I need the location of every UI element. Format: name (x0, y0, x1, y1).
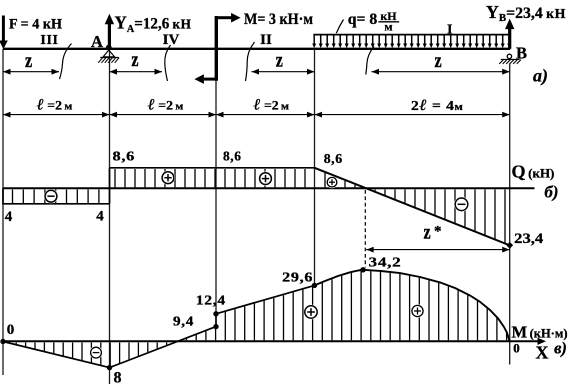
Q axis (zero line) (3, 187, 535, 189)
vertical gridline at start of distributed load (314, 49, 316, 286)
dashed line at Q zero crossing (364, 190, 366, 268)
svg-text:8,6: 8,6 (223, 150, 242, 165)
couple M: bottom arm arrow (left) (204, 78, 216, 81)
distributed load q: top line (313, 34, 509, 36)
Q plus sign circle 3 (326, 176, 338, 188)
Q positive rectangle top edge (110, 167, 315, 169)
distributed load q: arrows (313, 35, 315, 44)
length dimension row line (3, 114, 510, 116)
svg-text:12,4: 12,4 (196, 294, 226, 309)
section cut wavy line (II) (246, 42, 255, 81)
roller support at B: ground hatching (499, 60, 503, 64)
M dot at peak 34,2 (360, 267, 365, 272)
couple M: top arm arrow (right) (216, 16, 232, 19)
Q minus sign circle (right) (454, 197, 469, 212)
svg-text:M= 3 кН·м: M= 3 кН·м (244, 11, 313, 28)
svg-text:z: z (276, 49, 283, 73)
section cut wavy line (III) (60, 44, 72, 80)
M line 12,4 to 29,6 (216, 285, 315, 313)
svg-text:4: 4 (96, 208, 104, 224)
M dot at 9,4 (213, 324, 218, 329)
svg-text:4: 4 (5, 209, 13, 225)
pin support at A: triangle (103, 50, 115, 57)
Q value marker at B (diamond) (506, 242, 513, 249)
svg-text:z: z (434, 49, 441, 73)
svg-text:F = 4 кН: F = 4 кН (9, 16, 62, 32)
svg-text:8: 8 (114, 370, 122, 386)
M diagram hatching: positive region (186, 339, 188, 341)
reaction Y_A arrow (up) at A (108, 24, 111, 49)
q label leader line (336, 20, 343, 34)
Q plus sign circle 1 (161, 171, 175, 185)
Q diagram hatching: negative triangle (374, 190, 376, 192)
roller support at B: ground line (501, 58, 520, 60)
svg-text:а): а) (533, 65, 548, 86)
M line 0 to -8 (3, 342, 110, 368)
Q minus sign circle (left) (44, 189, 58, 203)
length dimension arrows (3, 112, 11, 118)
reaction Y_B arrow (up) at B (508, 29, 511, 49)
Q diagram hatching: negative rectangle (12, 190, 14, 204)
pin support at A: hinge circle (106, 45, 112, 51)
svg-text:*: * (434, 224, 442, 240)
svg-text:III: III (40, 33, 58, 48)
M minus sign circle (89, 346, 102, 359)
svg-text:II: II (260, 32, 272, 48)
force F arrow (down) at left end (2, 16, 5, 43)
M parabolic curve to peak 34,2 and down to B (315, 270, 510, 342)
Q diagonal from q start to B (315, 168, 510, 246)
roller support at B: circle (507, 54, 511, 58)
Q plus sign circle 2 (258, 172, 272, 186)
couple M: vertical bar (215, 16, 218, 81)
section cut wavy line (I) (366, 47, 374, 75)
svg-text:б): б) (544, 183, 558, 202)
svg-text:9,4: 9,4 (173, 315, 194, 330)
svg-text:м: м (384, 19, 392, 33)
z dimension row: segment III (3, 71, 59, 73)
svg-text:29,6: 29,6 (282, 270, 313, 285)
svg-text:8,6: 8,6 (324, 152, 343, 167)
M plus sign circle 2 (411, 304, 425, 318)
label z* (423, 220, 430, 244)
svg-text:A: A (91, 32, 103, 51)
svg-text:I: I (447, 23, 453, 38)
svg-text:z: z (131, 48, 138, 72)
vertical gridline at support B (509, 64, 511, 365)
M start dot (0, 339, 5, 344)
z dimension row: segment I (372, 71, 510, 73)
M axis (X axis) (3, 340, 538, 342)
svg-text:23,4: 23,4 (514, 231, 544, 247)
M line -8 to 9,4 (110, 327, 217, 368)
pin support at A: ground hatching (98, 58, 102, 63)
beam schematic: main beam line (3, 48, 510, 50)
M dot at A (-8) (107, 365, 112, 370)
vertical gridline at left end (2, 49, 4, 375)
M dot at 12,4 (213, 311, 218, 316)
section cut wavy line (IV) (165, 45, 171, 81)
Q diagram hatching: positive sliver right of q start (324, 173, 326, 187)
Q diagram hatching: positive rectangle (114, 169, 116, 187)
svg-text:34,2: 34,2 (369, 255, 402, 270)
M jump at couple (9,4 to 12,4) (215, 314, 217, 327)
z dimension row: segment IV (110, 71, 163, 73)
vertical gridline at moment point (215, 49, 217, 314)
z* dimension line (366, 249, 510, 251)
svg-text:X: X (536, 343, 549, 363)
Q negative rectangle outline (3, 188, 110, 204)
z dimension row: segment II (252, 71, 315, 73)
M dot at 29,6 (312, 283, 317, 288)
svg-text:0: 0 (7, 322, 15, 338)
M diagram hatching: negative triangle (15, 343, 17, 345)
svg-text:q= 8: q= 8 (348, 11, 378, 28)
vertical gridline at support A (109, 49, 111, 384)
M plus sign circle 1 (304, 305, 319, 320)
svg-text:0: 0 (513, 340, 520, 355)
svg-text:z: z (423, 220, 430, 244)
Q step at A (109, 168, 111, 204)
pin support at A: ground line (100, 57, 119, 59)
svg-text:IV: IV (163, 32, 180, 48)
svg-text:8,6: 8,6 (113, 150, 136, 165)
svg-text:в): в) (554, 338, 567, 357)
svg-text:z: z (25, 49, 32, 73)
